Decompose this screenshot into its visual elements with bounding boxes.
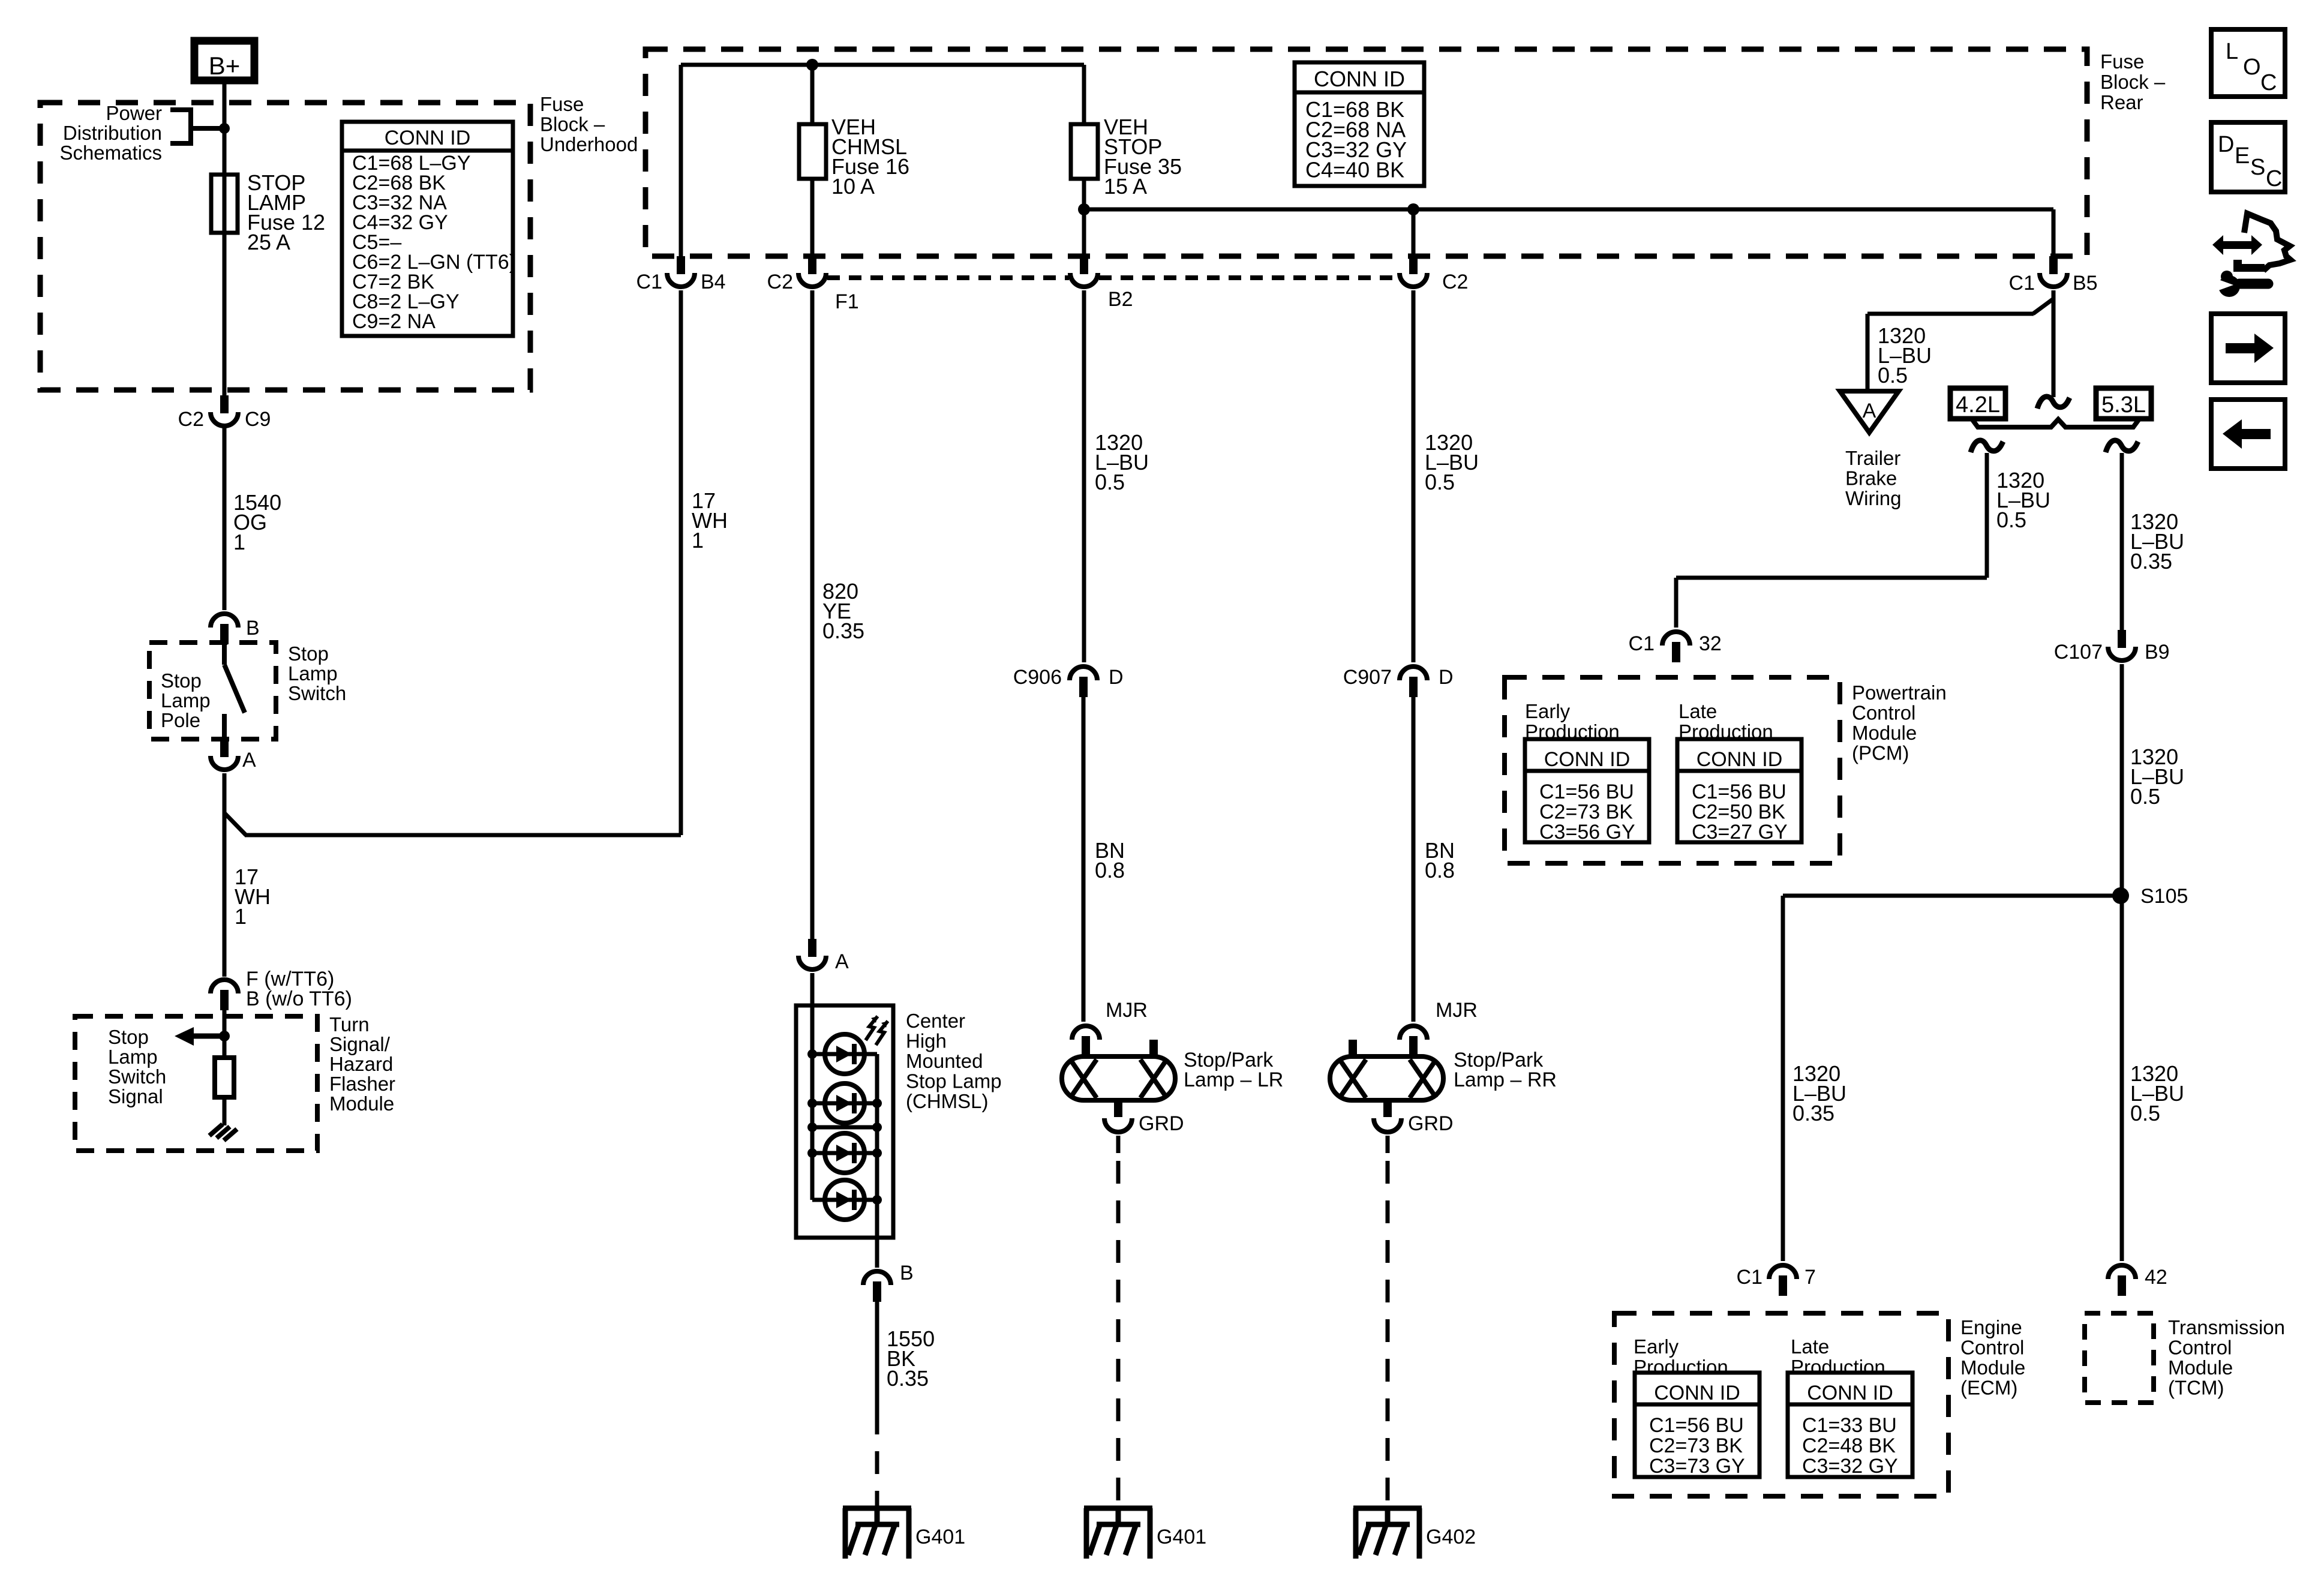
svg-text:B: B <box>900 1262 914 1284</box>
TCM box <box>2085 1313 2154 1403</box>
LED at y=1922 <box>812 1151 877 1155</box>
svg-text:Signal/: Signal/ <box>329 1033 391 1055</box>
svg-text:CONN ID: CONN ID <box>1654 1382 1740 1404</box>
ECM box <box>1614 1313 1948 1496</box>
connector C1/B5 <box>2049 256 2058 274</box>
svg-text:C1=56 BU: C1=56 BU <box>1649 1414 1744 1437</box>
svg-text:Schematics: Schematics <box>59 142 162 164</box>
svg-text:C1: C1 <box>2009 272 2035 295</box>
svg-text:Powertrain: Powertrain <box>1852 682 1947 704</box>
svg-text:Hazard: Hazard <box>329 1053 393 1075</box>
stop/park lamp RR <box>1330 1056 1443 1100</box>
svg-text:0.5: 0.5 <box>2130 784 2160 809</box>
svg-text:C4=40 BK: C4=40 BK <box>1305 158 1404 182</box>
svg-text:Control: Control <box>1852 702 1915 724</box>
connector C2/C9 <box>220 395 229 413</box>
svg-text:25 A: 25 A <box>247 230 290 254</box>
svg-text:C1: C1 <box>1629 632 1655 655</box>
wire 1550 BK 0.35 <box>875 1302 879 1412</box>
connector 42 (TCM) <box>2108 1265 2136 1279</box>
svg-text:G402: G402 <box>1426 1526 1476 1548</box>
svg-text:D: D <box>1109 666 1124 689</box>
svg-text:(TCM): (TCM) <box>2168 1377 2224 1399</box>
fuse block underhood box <box>40 103 530 390</box>
svg-text:CONN ID: CONN ID <box>385 127 471 149</box>
wire 1320 L-BU 0.5 (RR) <box>1412 290 1416 662</box>
5.3L box <box>2096 388 2151 419</box>
svg-text:A: A <box>1863 400 1876 422</box>
LED at y=2000 <box>812 1198 877 1202</box>
svg-text:(PCM): (PCM) <box>1852 742 1909 764</box>
CONN ID table: PCM early <box>1525 739 1649 842</box>
svg-text:CONN ID: CONN ID <box>1697 748 1783 771</box>
node: CHMSL fuse tap <box>806 59 818 71</box>
svg-text:C1: C1 <box>636 271 662 293</box>
svg-text:Module: Module <box>1960 1356 2025 1379</box>
svg-text:0.8: 0.8 <box>1095 858 1125 882</box>
svg-text:B2: B2 <box>1108 288 1133 311</box>
svg-text:E: E <box>2235 143 2250 169</box>
icon DESC <box>2211 122 2285 192</box>
svg-text:B: B <box>246 617 260 640</box>
svg-text:Stop Lamp: Stop Lamp <box>906 1070 1002 1092</box>
CONN ID table: ECM early <box>1635 1373 1759 1477</box>
wire 1320 L-BU 0.5 (LR) <box>1082 290 1086 662</box>
connector A (CHMSL) <box>808 939 816 957</box>
svg-text:CONN ID: CONN ID <box>1544 748 1631 771</box>
connector MJR (RR) <box>1400 1026 1427 1040</box>
CONN ID table: PCM late <box>1677 739 1801 842</box>
svg-text:C3=56 GY: C3=56 GY <box>1539 821 1635 843</box>
connector B2 <box>1080 256 1088 274</box>
svg-text:Pole: Pole <box>161 709 200 731</box>
svg-text:Stop: Stop <box>288 643 329 665</box>
svg-text:Underhood: Underhood <box>540 133 638 155</box>
svg-text:B (w/o TT6): B (w/o TT6) <box>246 987 352 1010</box>
CONN ID table: fuse block rear <box>1295 62 1424 186</box>
connector C907/D <box>1400 667 1427 680</box>
svg-text:7: 7 <box>1804 1266 1816 1289</box>
svg-text:GRD: GRD <box>1408 1112 1454 1135</box>
wire BN 0.8 (LR) <box>1082 697 1086 1022</box>
svg-text:0.35: 0.35 <box>887 1366 929 1391</box>
svg-text:C3=32 GY: C3=32 GY <box>1802 1455 1898 1478</box>
LED light arrows <box>866 1016 878 1040</box>
svg-text:Fuse: Fuse <box>2100 50 2144 73</box>
connector MJR (LR) <box>1072 1026 1100 1040</box>
CHMSL internals: LED array <box>810 1005 815 1200</box>
svg-text:Brake: Brake <box>1845 467 1897 490</box>
svg-text:Stop: Stop <box>161 670 202 692</box>
svg-text:C906: C906 <box>1013 666 1062 689</box>
node: power distribution tap <box>219 123 230 134</box>
svg-text:C2=50 BK: C2=50 BK <box>1692 801 1785 824</box>
svg-text:1: 1 <box>235 904 247 929</box>
svg-text:10 A: 10 A <box>831 174 875 199</box>
svg-text:Switch: Switch <box>288 682 346 704</box>
splice S105 <box>2112 887 2129 904</box>
wire 1540 OG 1 <box>223 427 227 610</box>
svg-text:C107: C107 <box>2054 641 2103 664</box>
stop lamp switch box <box>149 643 276 739</box>
power distribution bracket <box>170 107 191 112</box>
svg-text:Module: Module <box>1852 722 1917 744</box>
node: stop fuse junction <box>1078 203 1090 215</box>
connector GRD (RR) <box>1383 1100 1392 1117</box>
svg-text:Early: Early <box>1525 700 1571 722</box>
svg-text:0.35: 0.35 <box>822 619 864 643</box>
svg-text:C2: C2 <box>178 408 204 431</box>
svg-text:Flasher: Flasher <box>329 1073 395 1095</box>
svg-text:C1=56 BU: C1=56 BU <box>1539 781 1634 803</box>
svg-text:0.35: 0.35 <box>2130 549 2172 574</box>
svg-text:Lamp: Lamp <box>108 1046 158 1068</box>
fuse VEH CHMSL Fuse 16 10A <box>799 124 826 179</box>
svg-text:Rear: Rear <box>2100 91 2143 113</box>
svg-text:Trailer: Trailer <box>1845 447 1900 469</box>
LED at y=1839 <box>812 1101 877 1106</box>
svg-text:Control: Control <box>1960 1337 2024 1359</box>
svg-text:Block –: Block – <box>540 113 605 136</box>
wire B4 down to switch <box>679 290 683 835</box>
svg-text:Late: Late <box>1679 700 1717 722</box>
bus wire top <box>681 63 1084 67</box>
svg-text:0.8: 0.8 <box>1425 858 1455 882</box>
svg-text:C1: C1 <box>1737 1266 1762 1289</box>
option brace <box>1971 418 2140 427</box>
svg-text:F1: F1 <box>835 290 859 313</box>
svg-text:42: 42 <box>2145 1266 2167 1289</box>
icon wrench/arrows <box>2244 214 2290 271</box>
svg-text:15 A: 15 A <box>1104 174 1147 199</box>
icon arrow left <box>2211 400 2285 469</box>
connector B (stop lamp switch) <box>211 614 238 628</box>
svg-text:CONN ID: CONN ID <box>1807 1382 1893 1404</box>
CONN ID table: fuse block underhood <box>342 122 513 336</box>
connector C906/D <box>1070 667 1097 680</box>
connector C2 (rear) <box>1409 256 1418 274</box>
svg-text:0.5: 0.5 <box>2130 1101 2160 1125</box>
middle rung <box>812 1125 877 1130</box>
svg-text:A: A <box>835 950 849 973</box>
svg-text:B9: B9 <box>2145 641 2170 664</box>
battery feed B+ <box>194 41 254 80</box>
connector GRD (LR) <box>1114 1100 1122 1117</box>
stop/park lamp LR <box>1062 1056 1175 1100</box>
node: rear C2 tap <box>1407 203 1419 215</box>
svg-text:Mounted: Mounted <box>906 1050 983 1072</box>
wire B+ down <box>223 80 227 395</box>
connector C1/32 (PCM) <box>1662 632 1690 646</box>
svg-text:0.35: 0.35 <box>1792 1101 1834 1125</box>
svg-text:Power: Power <box>106 102 162 124</box>
bus wire lower (stop feed) <box>1084 208 2053 212</box>
fuse block rear box <box>645 49 2087 256</box>
svg-text:Late: Late <box>1791 1335 1829 1358</box>
resistor <box>215 1058 234 1097</box>
svg-text:B4: B4 <box>701 271 726 293</box>
connector face dotted line <box>827 275 1069 280</box>
connector A (switch output) <box>220 739 229 757</box>
ground G402 <box>1353 1506 1422 1511</box>
wire S105 to ECM <box>1783 894 2122 898</box>
svg-text:G401: G401 <box>1157 1526 1206 1548</box>
wire B5 drop + split <box>2052 290 2056 300</box>
svg-text:Lamp: Lamp <box>288 662 338 685</box>
wire to option split <box>2052 298 2056 397</box>
4.2L branch wire to PCM <box>1985 453 1989 578</box>
CONN ID table: ECM late <box>1788 1373 1912 1477</box>
svg-text:32: 32 <box>1699 632 1722 655</box>
connector B (CHMSL out) <box>875 1238 879 1268</box>
svg-text:1: 1 <box>233 530 245 554</box>
connector C1/B4 <box>677 256 685 274</box>
break squiggle (5.3L branch) <box>2106 440 2138 452</box>
svg-text:C3=73 GY: C3=73 GY <box>1649 1455 1745 1478</box>
connector F/B flasher <box>211 980 238 993</box>
svg-text:O: O <box>2243 55 2261 80</box>
connector C2/F1 <box>808 256 816 274</box>
svg-text:Signal: Signal <box>108 1085 163 1107</box>
svg-text:GRD: GRD <box>1139 1112 1184 1135</box>
ground G401 (CHMSL) <box>843 1506 911 1511</box>
svg-text:Lamp – RR: Lamp – RR <box>1454 1068 1557 1091</box>
wire to flasher + branch to B4 <box>223 773 227 977</box>
svg-text:High: High <box>906 1030 947 1052</box>
svg-text:C907: C907 <box>1343 666 1392 689</box>
svg-text:Transmission: Transmission <box>2168 1316 2285 1338</box>
connector C1/7 (ECM) <box>1769 1265 1797 1279</box>
break squiggle (top) <box>2037 397 2070 409</box>
svg-text:C2=73 BK: C2=73 BK <box>1539 801 1633 824</box>
svg-text:D: D <box>2218 132 2234 157</box>
fuse VEH STOP Fuse 35 15A <box>1071 124 1098 179</box>
svg-text:D: D <box>1439 666 1454 689</box>
flasher internals <box>223 1010 227 1058</box>
svg-text:0.5: 0.5 <box>1425 470 1455 494</box>
svg-text:C9: C9 <box>245 408 271 431</box>
svg-text:C: C <box>2266 166 2282 191</box>
svg-text:0.5: 0.5 <box>1095 470 1125 494</box>
svg-text:C9=2 NA: C9=2 NA <box>352 310 436 333</box>
svg-text:5.3L: 5.3L <box>2101 392 2146 418</box>
svg-text:MJR: MJR <box>1436 999 1478 1022</box>
svg-text:Fuse: Fuse <box>540 93 584 115</box>
svg-text:Engine: Engine <box>1960 1316 2022 1338</box>
svg-text:(ECM): (ECM) <box>1960 1377 2017 1399</box>
svg-text:C1=56 BU: C1=56 BU <box>1692 781 1786 803</box>
svg-text:CONN ID: CONN ID <box>1314 67 1405 91</box>
icon LOC <box>2211 29 2285 97</box>
LED at y=1757 <box>812 1052 877 1056</box>
turn signal hazard flasher module box <box>75 1016 317 1151</box>
svg-text:C: C <box>2260 70 2277 95</box>
svg-text:1: 1 <box>692 528 704 553</box>
svg-text:Switch: Switch <box>108 1065 166 1088</box>
connector C107/B9 <box>2118 630 2126 648</box>
svg-text:Distribution: Distribution <box>63 122 162 144</box>
switch blade <box>222 643 227 665</box>
svg-text:Block –: Block – <box>2100 71 2166 93</box>
svg-text:C3=27 GY: C3=27 GY <box>1692 821 1788 843</box>
svg-text:S105: S105 <box>2140 885 2188 908</box>
svg-text:0.5: 0.5 <box>1996 508 2026 532</box>
svg-text:(CHMSL): (CHMSL) <box>906 1090 989 1112</box>
PCM box <box>1505 677 1840 863</box>
4.2L box <box>1950 388 2005 419</box>
wire BN 0.8 (RR) <box>1412 697 1416 1022</box>
svg-text:G401: G401 <box>915 1526 965 1548</box>
CHMSL box <box>796 1005 893 1238</box>
fuse STOP LAMP Fuse 12 25A <box>211 175 238 233</box>
svg-text:S: S <box>2250 155 2265 180</box>
icon arrow right <box>2211 314 2285 383</box>
svg-text:B5: B5 <box>2073 272 2098 295</box>
svg-text:Center: Center <box>906 1010 965 1032</box>
svg-text:A: A <box>242 749 256 772</box>
trailer brake wiring triangle A <box>1840 391 1899 433</box>
svg-text:Lamp – LR: Lamp – LR <box>1184 1068 1283 1091</box>
svg-text:Module: Module <box>329 1092 394 1115</box>
wire to S105 <box>2120 664 2124 1261</box>
svg-text:C2: C2 <box>1442 271 1468 293</box>
chassis ground <box>209 1124 223 1136</box>
svg-text:4.2L: 4.2L <box>1956 392 2000 418</box>
svg-text:L: L <box>2226 39 2238 64</box>
svg-text:Stop: Stop <box>108 1026 149 1048</box>
svg-text:C2=73 BK: C2=73 BK <box>1649 1434 1743 1457</box>
5.3L branch wire <box>2120 453 2124 630</box>
break squiggle (4.2L branch) <box>1971 440 2003 452</box>
svg-text:0.5: 0.5 <box>1878 363 1908 388</box>
svg-text:MJR: MJR <box>1106 999 1148 1022</box>
svg-text:Control: Control <box>2168 1337 2232 1359</box>
svg-text:Turn: Turn <box>329 1013 370 1035</box>
ground G401 (LR) <box>1084 1506 1152 1511</box>
svg-text:Lamp: Lamp <box>161 689 211 712</box>
svg-text:C2: C2 <box>767 271 793 293</box>
wire 820 YE 0.35 <box>810 290 815 939</box>
svg-text:Early: Early <box>1634 1335 1679 1358</box>
svg-text:Module: Module <box>2168 1356 2233 1379</box>
svg-text:Wiring: Wiring <box>1845 487 1902 509</box>
svg-text:C1=33 BU: C1=33 BU <box>1802 1414 1897 1437</box>
svg-text:B+: B+ <box>209 52 241 80</box>
svg-text:C2=48 BK: C2=48 BK <box>1802 1434 1896 1457</box>
